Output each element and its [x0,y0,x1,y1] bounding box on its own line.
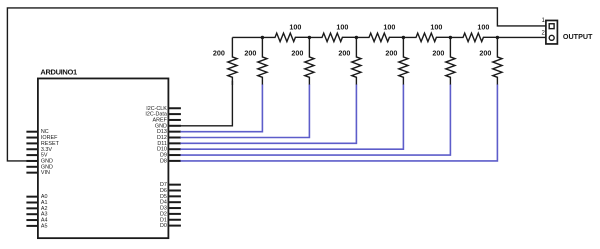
pin A2 (left) [26,207,38,209]
node junction at x=450 [449,36,452,39]
Arduino board U1 outline (ARDUINO1) [38,78,169,238]
resistor R2 100 (series) [262,33,309,42]
wire GND to termination resistor [168,81,232,126]
svg-text:100: 100 [336,22,348,31]
pin RESET (left) [26,142,38,144]
wire D9 to ladder [180,84,450,155]
wire D12 to ladder [180,84,309,137]
pin A1 (left) [26,202,38,204]
node junction at x=403 [402,36,405,39]
svg-text:D0: D0 [160,223,167,229]
node junction at x=497 [496,36,499,39]
resistor R8 200 (bit D12) [305,37,314,84]
resistor R12 200 (bit D8) [493,37,502,84]
svg-text:2: 2 [542,31,546,37]
pin D12 (right) [168,137,181,139]
pin I2C-CLK (right) [168,107,181,109]
svg-text:200: 200 [432,49,444,58]
wire D10 to ladder [180,84,403,149]
svg-text:200: 200 [213,49,225,58]
svg-text:VIN: VIN [41,170,50,176]
pin I2C-Data (right) [168,113,181,115]
pin NC (left) [26,131,38,133]
resistor R6 100 (series) [450,33,497,42]
resistor R10 200 (bit D10) [399,37,408,84]
pin A5 (left) [26,225,38,227]
resistor R7 200 (bit D13) [258,37,267,84]
resistor R11 200 (bit D9) [446,37,455,84]
svg-text:200: 200 [338,49,350,58]
svg-text:A5: A5 [41,223,48,229]
pin D8 (right) [168,160,181,162]
pin D6 (right) [168,190,181,192]
node junction at x=356 [355,36,358,39]
pin A0 (left) [26,196,38,198]
svg-text:200: 200 [385,49,397,58]
pin GND (left) [26,160,38,162]
svg-text:1: 1 [542,18,546,24]
pin D1 (right) [168,219,181,221]
wire D8 to ladder [180,84,497,160]
pin A3 (left) [26,213,38,215]
resistor R4 100 (series) [356,33,403,42]
pin D2 (right) [168,213,181,215]
svg-text:OUTPUT: OUTPUT [563,32,593,41]
node junction at x=309 [308,36,311,39]
pin GND (left) [26,166,38,168]
svg-text:100: 100 [477,22,489,31]
pin GND (right) [168,125,181,127]
svg-text:200: 200 [244,49,256,58]
wire GND loop from Arduino GND pin to OUTPUT pin 1 [7,8,546,161]
svg-text:ARDUINO1: ARDUINO1 [40,67,77,76]
resistor R3 100 (series) [309,33,356,42]
svg-text:200: 200 [291,49,303,58]
pin AREF (right) [168,119,181,121]
svg-text:200: 200 [479,49,491,58]
resistor R5 100 (series) [403,33,450,42]
connector J1 pin 2 pad (round) [549,35,554,40]
connector J1 pin 1 pad (square) [549,24,554,29]
pin D7 (right) [168,184,181,186]
node junction at x=262 [261,36,264,39]
pin D9 (right) [168,154,181,156]
svg-text:100: 100 [383,22,395,31]
wire D13 to ladder [180,84,262,131]
pin VIN (left) [26,172,38,174]
pin D5 (right) [168,195,181,197]
wire D11 to ladder [180,84,356,143]
connector J1 outline [546,20,558,44]
resistor R1 200 (termination) [228,37,237,84]
pin D4 (right) [168,201,181,203]
svg-text:100: 100 [289,22,301,31]
svg-text:D8: D8 [160,158,167,164]
pin A4 (left) [26,219,38,221]
pin D3 (right) [168,207,181,209]
resistor R9 200 (bit D11) [352,37,361,84]
pin D11 (right) [168,142,181,144]
wire ladder output node to OUTPUT pin 2 [497,36,546,38]
pin D10 (right) [168,148,181,150]
svg-text:100: 100 [430,22,442,31]
pin D13 (right) [168,131,181,133]
pin D0 (right) [168,225,181,227]
wire rail termination to node D13 [232,36,262,38]
pin 3.3V (left) [26,148,38,150]
pin 5V (left) [26,154,38,156]
pin IOREF (left) [26,137,38,139]
